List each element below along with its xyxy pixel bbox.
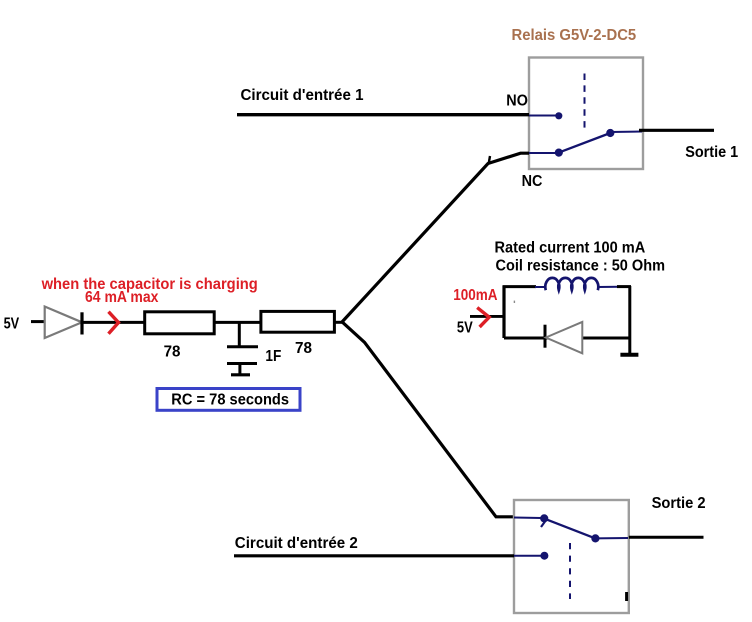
- svg-text:Coil resistance : 50 Ohm: Coil resistance : 50 Ohm: [496, 257, 666, 274]
- wire into coil navy: [535, 286, 546, 288]
- node NC pin K2: [540, 514, 548, 522]
- svg-text:Circuit d'entrée 1: Circuit d'entrée 1: [241, 87, 364, 104]
- inductor L1 coil: [545, 278, 598, 290]
- wire coil left vertical: [502, 286, 505, 338]
- node NO pin K2: [540, 552, 548, 560]
- wire from coil navy: [598, 286, 621, 288]
- wire junction to NC: [342, 153, 529, 322]
- wire R1 to R2: [214, 321, 262, 324]
- diode D1 cathode bar: [80, 312, 83, 334]
- diode D2 cathode bar: [544, 325, 547, 348]
- relay K1 box: [529, 58, 643, 170]
- relay K2 coil dashed line: [569, 543, 571, 599]
- svg-text:RC = 78 seconds: RC = 78 seconds: [171, 392, 289, 409]
- wire capacitor to ground: [238, 364, 241, 375]
- resistor R1: [145, 312, 215, 334]
- arrow current 64mA: [109, 312, 119, 334]
- wire arrow tick at bend: [489, 156, 490, 164]
- svg-text:Sortie 2: Sortie 2: [652, 495, 706, 512]
- arrow current 100mA: [477, 308, 489, 327]
- node NC pin: [555, 149, 563, 157]
- node common pin K2: [591, 534, 599, 542]
- diode D1: [45, 307, 82, 339]
- wire R2 to junction: [334, 321, 343, 324]
- wire NO inside relay 2: [514, 555, 541, 557]
- diode D2 flyback: [546, 322, 583, 353]
- wire input 1: [237, 113, 529, 116]
- svg-text:78: 78: [164, 343, 181, 360]
- svg-text:Circuit d'entrée 2: Circuit d'entrée 2: [235, 535, 358, 552]
- wire coil right vertical: [628, 286, 631, 353]
- wire coil top left: [503, 285, 537, 288]
- wire 5V to diode D1: [31, 320, 45, 323]
- relay K1 coil dashed line: [584, 74, 586, 129]
- wire Sortie 2: [629, 536, 704, 539]
- svg-text:5V: 5V: [4, 316, 20, 333]
- capacitor C1 bottom plate: [227, 362, 257, 365]
- svg-text:64 mA max: 64 mA max: [85, 289, 159, 306]
- switch arm K2: [544, 519, 595, 539]
- relay K2 box: [514, 500, 629, 613]
- wire NC inside relay 2: [514, 517, 541, 520]
- wire common inside relay: [610, 131, 642, 134]
- switch arm K1: [559, 133, 611, 153]
- svg-text:100mA: 100mA: [453, 287, 497, 304]
- svg-text:78: 78: [295, 340, 312, 357]
- svg-text:Rated current 100 mA: Rated current 100 mA: [495, 239, 646, 256]
- wire NO inside relay: [529, 115, 556, 117]
- node common pin K1: [606, 129, 614, 137]
- wire input 2: [234, 554, 514, 557]
- svg-text:5V: 5V: [457, 319, 473, 336]
- tick on relay 2 border: [625, 592, 628, 601]
- wire junction to relay 2: [342, 322, 514, 517]
- node NO pin: [555, 112, 562, 119]
- svg-text:1F: 1F: [265, 348, 281, 365]
- stray mark: [513, 301, 515, 303]
- annotation box RC: [157, 389, 300, 411]
- wire Sortie 1: [639, 129, 714, 132]
- wire capacitor drop: [238, 322, 241, 346]
- wire coil bottom: [504, 336, 630, 339]
- svg-text:Sortie 1: Sortie 1: [685, 144, 738, 161]
- wire coil top right black: [617, 285, 631, 288]
- wire NC inside relay: [529, 152, 556, 154]
- svg-text:NC: NC: [522, 173, 543, 190]
- resistor R2: [261, 311, 335, 332]
- wire diode D1 to R1: [82, 321, 146, 324]
- svg-text:Relais G5V-2-DC5: Relais G5V-2-DC5: [512, 27, 637, 44]
- wire common inside relay 2: [595, 537, 628, 539]
- wire 5V entry to coil box: [470, 315, 504, 318]
- ground capacitor: [231, 373, 250, 376]
- capacitor C1 top plate: [227, 345, 258, 348]
- ground: [620, 353, 638, 357]
- svg-text:NO: NO: [506, 92, 528, 109]
- wire arrow tick on arm: [541, 522, 545, 528]
